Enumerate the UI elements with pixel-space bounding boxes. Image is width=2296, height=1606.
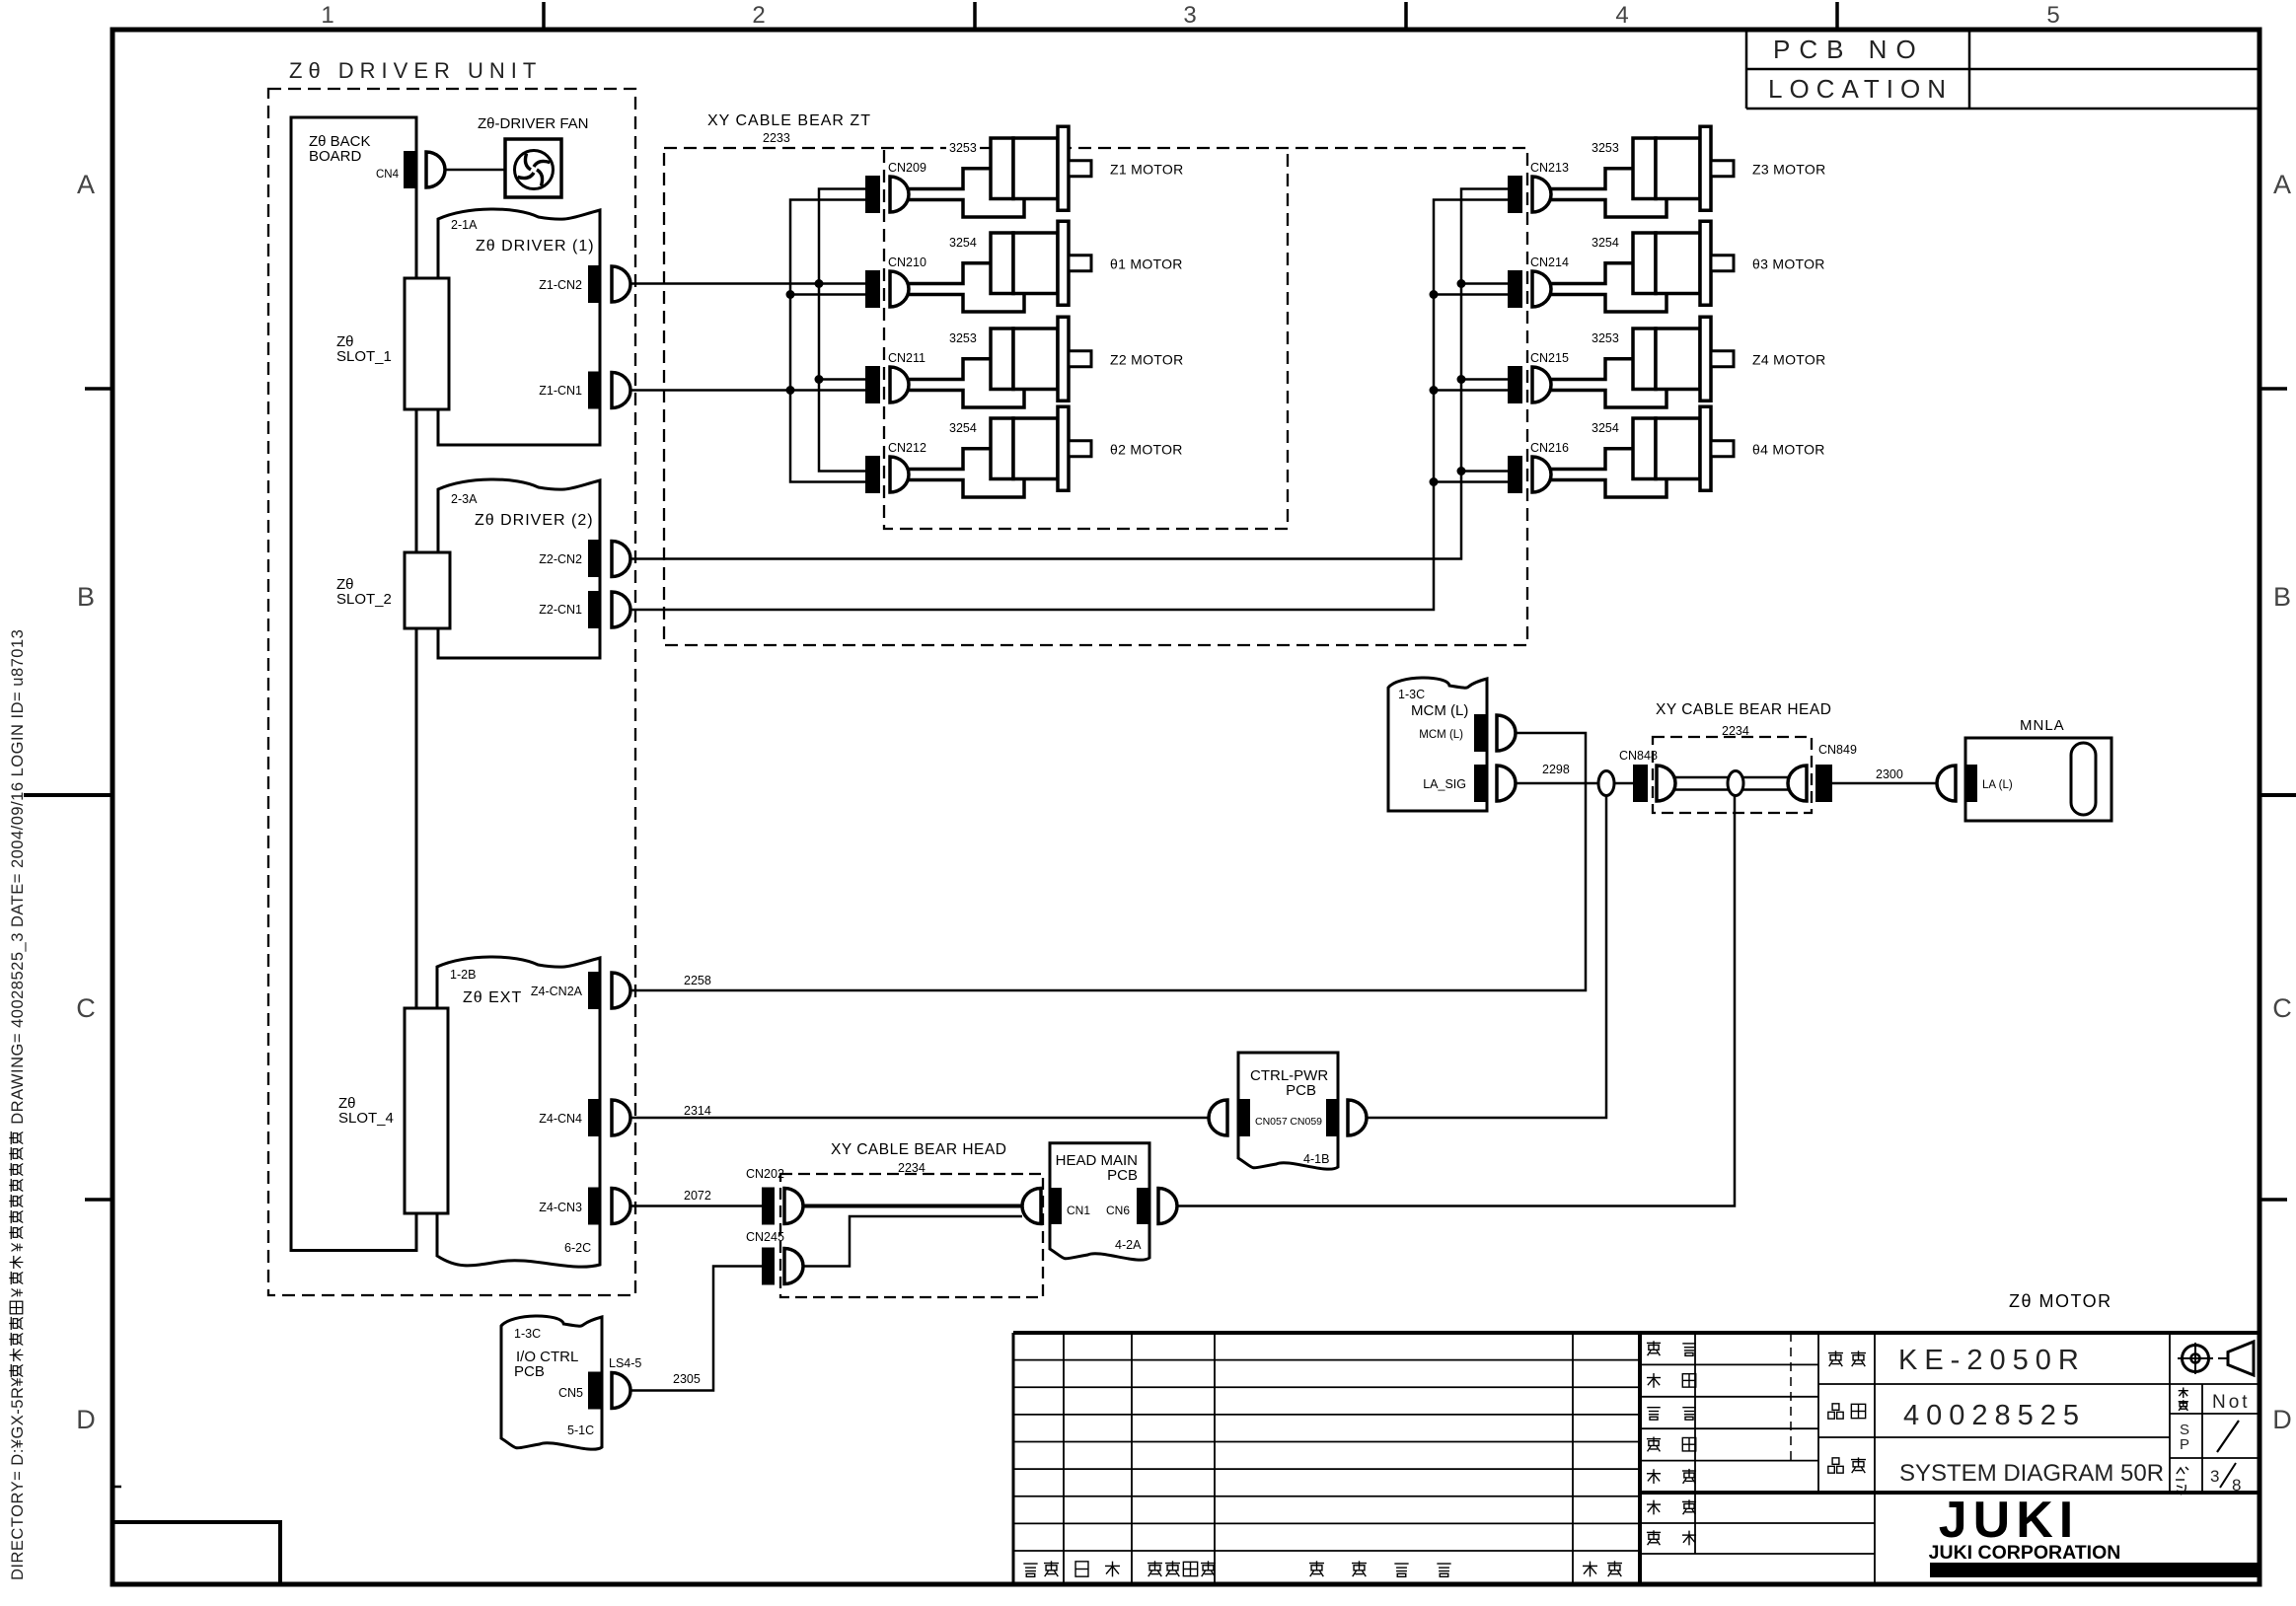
svg-text:CN210: CN210 (888, 255, 926, 269)
svg-text:LA (L): LA (L) (1982, 779, 2013, 791)
svg-text:Z3 MOTOR: Z3 MOTOR (1752, 161, 1825, 177)
svg-text:A: A (2273, 170, 2291, 199)
motor &#952;4 MOTOR (1633, 418, 1656, 479)
svg-text:LS4-5: LS4-5 (609, 1356, 641, 1370)
svg-text:JUKI: JUKI (1939, 1492, 2079, 1549)
svg-text:θ4 MOTOR: θ4 MOTOR (1752, 441, 1825, 457)
svg-text:2-3A: 2-3A (451, 492, 478, 506)
CTRL-PWR PCB board (1238, 1053, 1338, 1169)
svg-text:Zθ DRIVER UNIT: Zθ DRIVER UNIT (289, 58, 542, 83)
svg-text:Z2 MOTOR: Z2 MOTOR (1110, 351, 1183, 367)
svg-text:A: A (77, 170, 95, 199)
svg-text:CN211: CN211 (888, 351, 926, 365)
svg-text:MCM (L): MCM (L) (1411, 702, 1468, 719)
svg-text:5: 5 (2046, 2, 2059, 29)
I/O CTRL PCB board (501, 1316, 602, 1449)
junction bus A right (1457, 375, 1466, 384)
svg-text:Z1-CN1: Z1-CN1 (539, 384, 582, 398)
title block (1013, 1331, 2259, 1335)
svg-text:LOCATION: LOCATION (1768, 74, 1953, 104)
cable 3254 (946, 419, 980, 434)
junction bus A right (1457, 279, 1466, 288)
Z-theta DRIVER UNIT dashed enclosure (268, 89, 635, 1295)
svg-text:CN4: CN4 (376, 169, 400, 181)
revision table labels (1023, 1564, 1037, 1576)
cable 3254 (1589, 234, 1622, 249)
svg-text:Zθ-DRIVER FAN: Zθ-DRIVER FAN (478, 115, 589, 132)
svg-text:CN6: CN6 (1106, 1204, 1130, 1217)
svg-text:3253: 3253 (1592, 141, 1619, 155)
svg-text:D: D (76, 1405, 96, 1434)
svg-text:1: 1 (321, 2, 333, 29)
svg-text:Z4-CN4: Z4-CN4 (539, 1112, 582, 1126)
cable 3253 (1589, 329, 1622, 344)
svg-text:CN216: CN216 (1530, 441, 1569, 455)
svg-text:CN212: CN212 (888, 441, 926, 455)
bus B right stub (1434, 293, 1508, 296)
svg-text:6-2C: 6-2C (564, 1241, 591, 1255)
connector CN1 (1050, 1188, 1062, 1224)
svg-text:Zθ MOTOR: Zθ MOTOR (2009, 1291, 2112, 1311)
bus B right stub (1434, 480, 1508, 483)
sidebar plot info vertical text (9, 629, 27, 1580)
Z-theta SLOT_1 (405, 278, 449, 409)
junction bus B / CN210 (786, 290, 795, 299)
junction bus B right (1430, 477, 1439, 486)
svg-text:KE-2050R: KE-2050R (1898, 1345, 2086, 1376)
stamp box bottom-left (112, 1522, 280, 1584)
scale cell (2179, 1387, 2188, 1398)
ferrite oval on 2298 (1598, 771, 1614, 796)
svg-text:2072: 2072 (684, 1189, 711, 1203)
head cable wires (1675, 776, 1788, 779)
svg-text:CN057: CN057 (1255, 1116, 1288, 1128)
zone column ticks top (542, 2, 546, 30)
svg-text:4-2A: 4-2A (1115, 1238, 1142, 1252)
motor Z2 MOTOR (991, 328, 1013, 390)
svg-text:2: 2 (752, 2, 765, 29)
projection symbol (2183, 1346, 2209, 1372)
svg-text:3253: 3253 (1592, 331, 1619, 345)
XY CABLE BEAR HEAD (bottom) dashed box (780, 1174, 1043, 1297)
XY CABLE BEAR ZT outer dashed box (664, 148, 1527, 645)
Z-theta DRIVER (2) board (438, 479, 600, 658)
motor &#952;2 MOTOR (991, 418, 1013, 479)
svg-text:2258: 2258 (684, 974, 711, 987)
ferrite oval mid cable (1728, 771, 1743, 796)
bus B right stub (1434, 389, 1508, 392)
svg-text:Z4-CN2A: Z4-CN2A (531, 985, 583, 998)
svg-text:8: 8 (2232, 1476, 2241, 1495)
bus A left group (819, 189, 865, 472)
cable 3253 (946, 139, 980, 154)
svg-text:Zθ DRIVER (2): Zθ DRIVER (2) (475, 512, 594, 529)
svg-text:PCB NO: PCB NO (1773, 35, 1925, 64)
motor &#952;1 MOTOR (991, 233, 1013, 294)
svg-text:SLOT_2: SLOT_2 (336, 591, 392, 608)
svg-text:2233: 2233 (763, 131, 790, 145)
cable 3254 (1589, 419, 1622, 434)
svg-text:XY CABLE BEAR HEAD: XY CABLE BEAR HEAD (831, 1141, 1006, 1158)
HEAD MAIN PCB board (1050, 1143, 1149, 1260)
cable 3254 (946, 234, 980, 249)
svg-text:PCB: PCB (514, 1363, 545, 1380)
svg-text:DRAWING= 40028525_3 DATE= 2004: DRAWING= 40028525_3 DATE= 2004/09/16 LOG… (9, 629, 27, 1128)
head cable right plug (1788, 766, 1807, 801)
svg-text:PCB: PCB (1286, 1082, 1316, 1099)
svg-text:Zθ DRIVER (1): Zθ DRIVER (1) (476, 238, 595, 255)
wire Z1-CN1 to CN211 (630, 389, 865, 392)
svg-text:B: B (2273, 582, 2291, 612)
svg-text:3254: 3254 (949, 236, 977, 250)
svg-text:B: B (77, 582, 95, 612)
svg-text:3: 3 (2210, 1467, 2219, 1486)
svg-text:θ2 MOTOR: θ2 MOTOR (1110, 441, 1183, 457)
svg-text:θ3 MOTOR: θ3 MOTOR (1752, 255, 1825, 271)
svg-text:CN849: CN849 (1818, 743, 1857, 757)
zone row ticks left (85, 387, 112, 391)
PCB NO / LOCATION table (1745, 30, 1748, 109)
svg-text:MCM (L): MCM (L) (1419, 729, 1463, 741)
head cable upper wire (803, 1204, 1022, 1208)
page cell (2177, 1468, 2185, 1474)
svg-text:XY CABLE BEAR ZT: XY CABLE BEAR ZT (707, 112, 871, 129)
cable 3253 (946, 329, 980, 344)
zone row ticks right (2259, 387, 2287, 391)
svg-text:θ1 MOTOR: θ1 MOTOR (1110, 255, 1183, 271)
svg-text:Z2-CN2: Z2-CN2 (539, 552, 582, 566)
svg-text:Not: Not (2212, 1392, 2251, 1413)
junction bus A / Z1-CN2 (815, 279, 824, 288)
connector LA(L) plug (1937, 766, 1956, 801)
svg-text:CN059: CN059 (1290, 1116, 1322, 1128)
bus A right stub (1461, 378, 1508, 381)
Z-theta SLOT_4 (405, 1008, 448, 1213)
connector CN6 (1137, 1188, 1148, 1224)
svg-text:Z2-CN1: Z2-CN1 (539, 603, 582, 617)
wire Z2-CN1 to bus B right (630, 200, 1508, 611)
Z-theta EXT board (437, 957, 600, 1267)
svg-text:MNLA: MNLA (2020, 717, 2065, 734)
svg-text:BOARD: BOARD (309, 148, 362, 165)
svg-text:¥: ¥ (9, 1287, 27, 1298)
head cable lower wire (803, 1216, 1022, 1267)
svg-text:PCB: PCB (1107, 1167, 1138, 1184)
svg-text:CN215: CN215 (1530, 351, 1569, 365)
approval labels (1647, 1341, 1661, 1355)
svg-text:XY CABLE BEAR HEAD: XY CABLE BEAR HEAD (1656, 701, 1831, 718)
svg-text:2305: 2305 (673, 1372, 701, 1386)
cone symbol (2228, 1342, 2254, 1375)
bus B left group (790, 200, 865, 482)
junction bus A / CN211 (815, 375, 824, 384)
svg-text:SYSTEM DIAGRAM 50R: SYSTEM DIAGRAM 50R (1899, 1460, 2164, 1487)
svg-text:3254: 3254 (949, 421, 977, 435)
svg-text:¥: ¥ (9, 1242, 27, 1253)
svg-text:Zθ EXT: Zθ EXT (463, 989, 522, 1006)
bus A right stub (1461, 282, 1508, 285)
svg-text:3254: 3254 (1592, 421, 1619, 435)
svg-text:SLOT_1: SLOT_1 (336, 348, 392, 365)
Z-theta DRIVER (1) board (438, 209, 600, 445)
svg-text:SLOT_4: SLOT_4 (338, 1110, 394, 1127)
XY CABLE BEAR ZT inner dashed box (884, 150, 1288, 529)
svg-text:3253: 3253 (949, 141, 977, 155)
junction bus B right (1430, 386, 1439, 395)
svg-text:5-1C: 5-1C (567, 1423, 594, 1437)
connector CN059 (1326, 1099, 1339, 1136)
svg-text:4: 4 (1615, 2, 1628, 29)
motor Z3 MOTOR (1633, 138, 1656, 199)
svg-text:1-3C: 1-3C (1398, 688, 1425, 701)
MCM(L) board (1388, 678, 1487, 811)
svg-text:CN5: CN5 (558, 1386, 583, 1400)
bus A right stub (1461, 470, 1508, 473)
head cable right plug to CN1 (1022, 1189, 1041, 1224)
svg-text:3253: 3253 (949, 331, 977, 345)
wire Z1-CN2 to CN210 (630, 282, 865, 285)
svg-text:1-3C: 1-3C (514, 1327, 541, 1341)
svg-text:D: D (2272, 1405, 2292, 1434)
svg-text:1-2B: 1-2B (450, 968, 476, 982)
svg-text:C: C (2272, 993, 2292, 1023)
svg-text:Z4-CN3: Z4-CN3 (539, 1201, 582, 1214)
svg-text:4-1B: 4-1B (1303, 1152, 1329, 1166)
junction bus B right (1430, 290, 1439, 299)
Z-theta BACK BOARD (291, 117, 416, 1251)
wire CN4 to fan (445, 169, 505, 172)
svg-text:40028525: 40028525 (1903, 1400, 2086, 1431)
wire CN6 riser to mid oval (1176, 796, 1735, 1206)
Z-theta SLOT_2 (405, 552, 450, 628)
svg-text:3254: 3254 (1592, 236, 1619, 250)
svg-text:2300: 2300 (1876, 767, 1903, 781)
svg-text:Z4 MOTOR: Z4 MOTOR (1752, 351, 1825, 367)
cable 3253 (1589, 139, 1622, 154)
head cable left plug (1657, 766, 1675, 801)
svg-text:CN209: CN209 (888, 161, 926, 175)
motor Z4 MOTOR (1633, 328, 1656, 390)
svg-text:CN213: CN213 (1530, 161, 1569, 175)
svg-text:Z1 MOTOR: Z1 MOTOR (1110, 161, 1183, 177)
svg-text:CN202: CN202 (746, 1167, 784, 1181)
svg-text:Z1-CN2: Z1-CN2 (539, 278, 582, 292)
svg-text:DIRECTORY= D:¥GX-5R¥: DIRECTORY= D:¥GX-5R¥ (9, 1377, 27, 1580)
svg-text:LA_SIG: LA_SIG (1423, 777, 1466, 791)
svg-text:CN214: CN214 (1530, 255, 1569, 269)
wire Z2-CN2 to bus A right (630, 189, 1508, 559)
motor &#952;3 MOTOR (1633, 233, 1656, 294)
svg-text:2314: 2314 (684, 1104, 711, 1118)
svg-text:CN1: CN1 (1067, 1204, 1090, 1217)
svg-text:2298: 2298 (1542, 763, 1570, 776)
svg-text:C: C (76, 993, 96, 1023)
svg-text:CN245: CN245 (746, 1230, 784, 1244)
junction bus B / Z1-CN1 (786, 386, 795, 395)
connector LA(L) (1965, 765, 1977, 802)
svg-text:2-1A: 2-1A (451, 218, 478, 232)
connector CN057 (1209, 1100, 1227, 1135)
svg-text:JUKI CORPORATION: JUKI CORPORATION (1929, 1542, 2121, 1564)
XY CABLE BEAR HEAD (top) dashed box (1653, 737, 1812, 813)
junction bus A right (1457, 467, 1466, 475)
svg-text:P: P (2180, 1436, 2189, 1453)
MNLA pill mark (2071, 743, 2096, 815)
wire CN059 riser to 2298 oval (1367, 796, 1606, 1119)
motor Z1 MOTOR (991, 138, 1013, 199)
svg-text:3: 3 (1183, 2, 1196, 29)
